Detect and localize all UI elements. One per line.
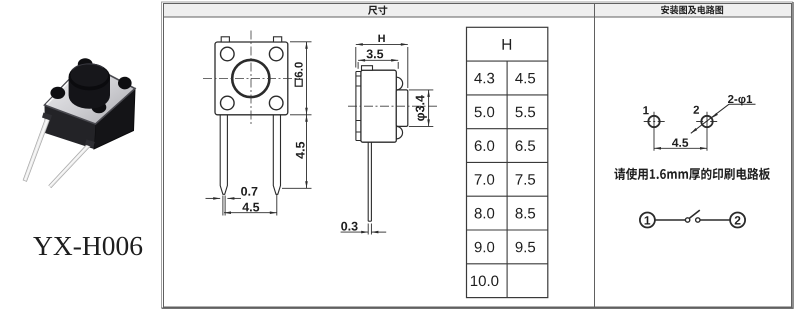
terminal 2 label [735, 216, 741, 224]
dim 6.0 label [295, 62, 303, 86]
dim 4.5h extension lines [223, 195, 277, 216]
side view body [361, 70, 396, 142]
terminal 1 label [645, 216, 651, 224]
side view button shaft [396, 90, 408, 127]
H table text [471, 39, 535, 286]
dim 3.5 label [367, 50, 384, 59]
panel divider [594, 4, 596, 308]
side view top tab [362, 66, 373, 71]
dim 0.3 extension lines [368, 224, 371, 235]
hole 2 leader label [728, 95, 752, 105]
hole 2 crosshair [696, 112, 718, 151]
side view button dome top [396, 77, 402, 90]
switch lever [689, 210, 699, 218]
front view corner circle BL [221, 96, 235, 110]
photo switch top plate [45, 63, 136, 125]
dim 4.5h line [224, 211, 277, 214]
hole 1 crosshair [644, 112, 666, 151]
dim 0.7 label [241, 187, 257, 196]
terminal 2 circle [730, 213, 745, 228]
contact pole right [696, 218, 700, 222]
side view button dome bottom [396, 126, 402, 138]
dim holes 4.5 line [654, 147, 707, 150]
header bar [164, 4, 792, 18]
dim 4.5h label [242, 203, 259, 212]
front view corner circle BR [269, 96, 283, 110]
photo switch body front face [45, 105, 96, 149]
dim 0.3 label [341, 222, 357, 231]
photo button top [69, 63, 110, 90]
front view top tab left [221, 37, 229, 42]
dim holes 4.5 label [672, 139, 688, 147]
front view left leg [220, 115, 227, 195]
side view leg [368, 142, 371, 221]
hole 2 [701, 116, 712, 127]
front view corner circle TR [269, 47, 283, 61]
photo corner bump top [78, 58, 93, 70]
side view centerline [348, 105, 437, 107]
photo corner bump near-left [50, 87, 65, 99]
hole 2 label [694, 106, 700, 114]
dim phi3.4 extension lines [409, 90, 434, 127]
photo leg 1 root [42, 113, 52, 121]
dim 4.5v extension line [282, 187, 312, 189]
front view corner circle TL [221, 47, 235, 61]
photo switch body right face [94, 89, 135, 150]
inner panel border [164, 4, 792, 308]
dim phi3.4 label [416, 95, 427, 121]
photo corner bump right [118, 77, 132, 90]
photo leg 2 root [85, 140, 95, 148]
dim 6.0 line [305, 42, 308, 115]
header title chi-cun [368, 6, 387, 15]
front view centerline vertical [250, 31, 252, 127]
hole 1 [648, 116, 659, 127]
pcb note [614, 168, 770, 180]
wire left [655, 219, 685, 221]
H table grid [467, 27, 548, 297]
photo button stem [69, 77, 110, 109]
terminal 1 circle [640, 213, 655, 228]
dim 0.3 lines [341, 231, 387, 234]
contact pole left [685, 218, 689, 222]
dim 3.5 line [358, 59, 398, 62]
side view left flange [356, 72, 361, 141]
dim H label [378, 35, 384, 42]
front view top tab right [274, 37, 282, 42]
front view center button circle [232, 60, 269, 97]
front view right leg [273, 115, 280, 195]
dim H line [356, 43, 408, 46]
dim 3.5 extension lines [358, 62, 398, 69]
photo corner bump front [92, 101, 107, 113]
hole 1 label [643, 106, 648, 114]
header title anzhuang-tu [661, 5, 723, 14]
wire right [700, 219, 730, 221]
dim 4.5v label [296, 142, 305, 159]
hole 2 leader [691, 104, 756, 133]
photo leg 1 [23, 114, 51, 181]
front view centerline horizontal [203, 77, 300, 79]
photo leg 2 [49, 142, 92, 188]
outer frame [161, 2, 794, 309]
dim 4.5v line [305, 115, 308, 189]
dim 0.7 lines [206, 197, 242, 200]
dim H extension lines [356, 47, 408, 88]
model label YX-H006 [33, 237, 142, 256]
dim phi3.4 line [427, 90, 430, 127]
front view body square [215, 42, 288, 115]
dim 6.0 extension lines [290, 42, 312, 115]
